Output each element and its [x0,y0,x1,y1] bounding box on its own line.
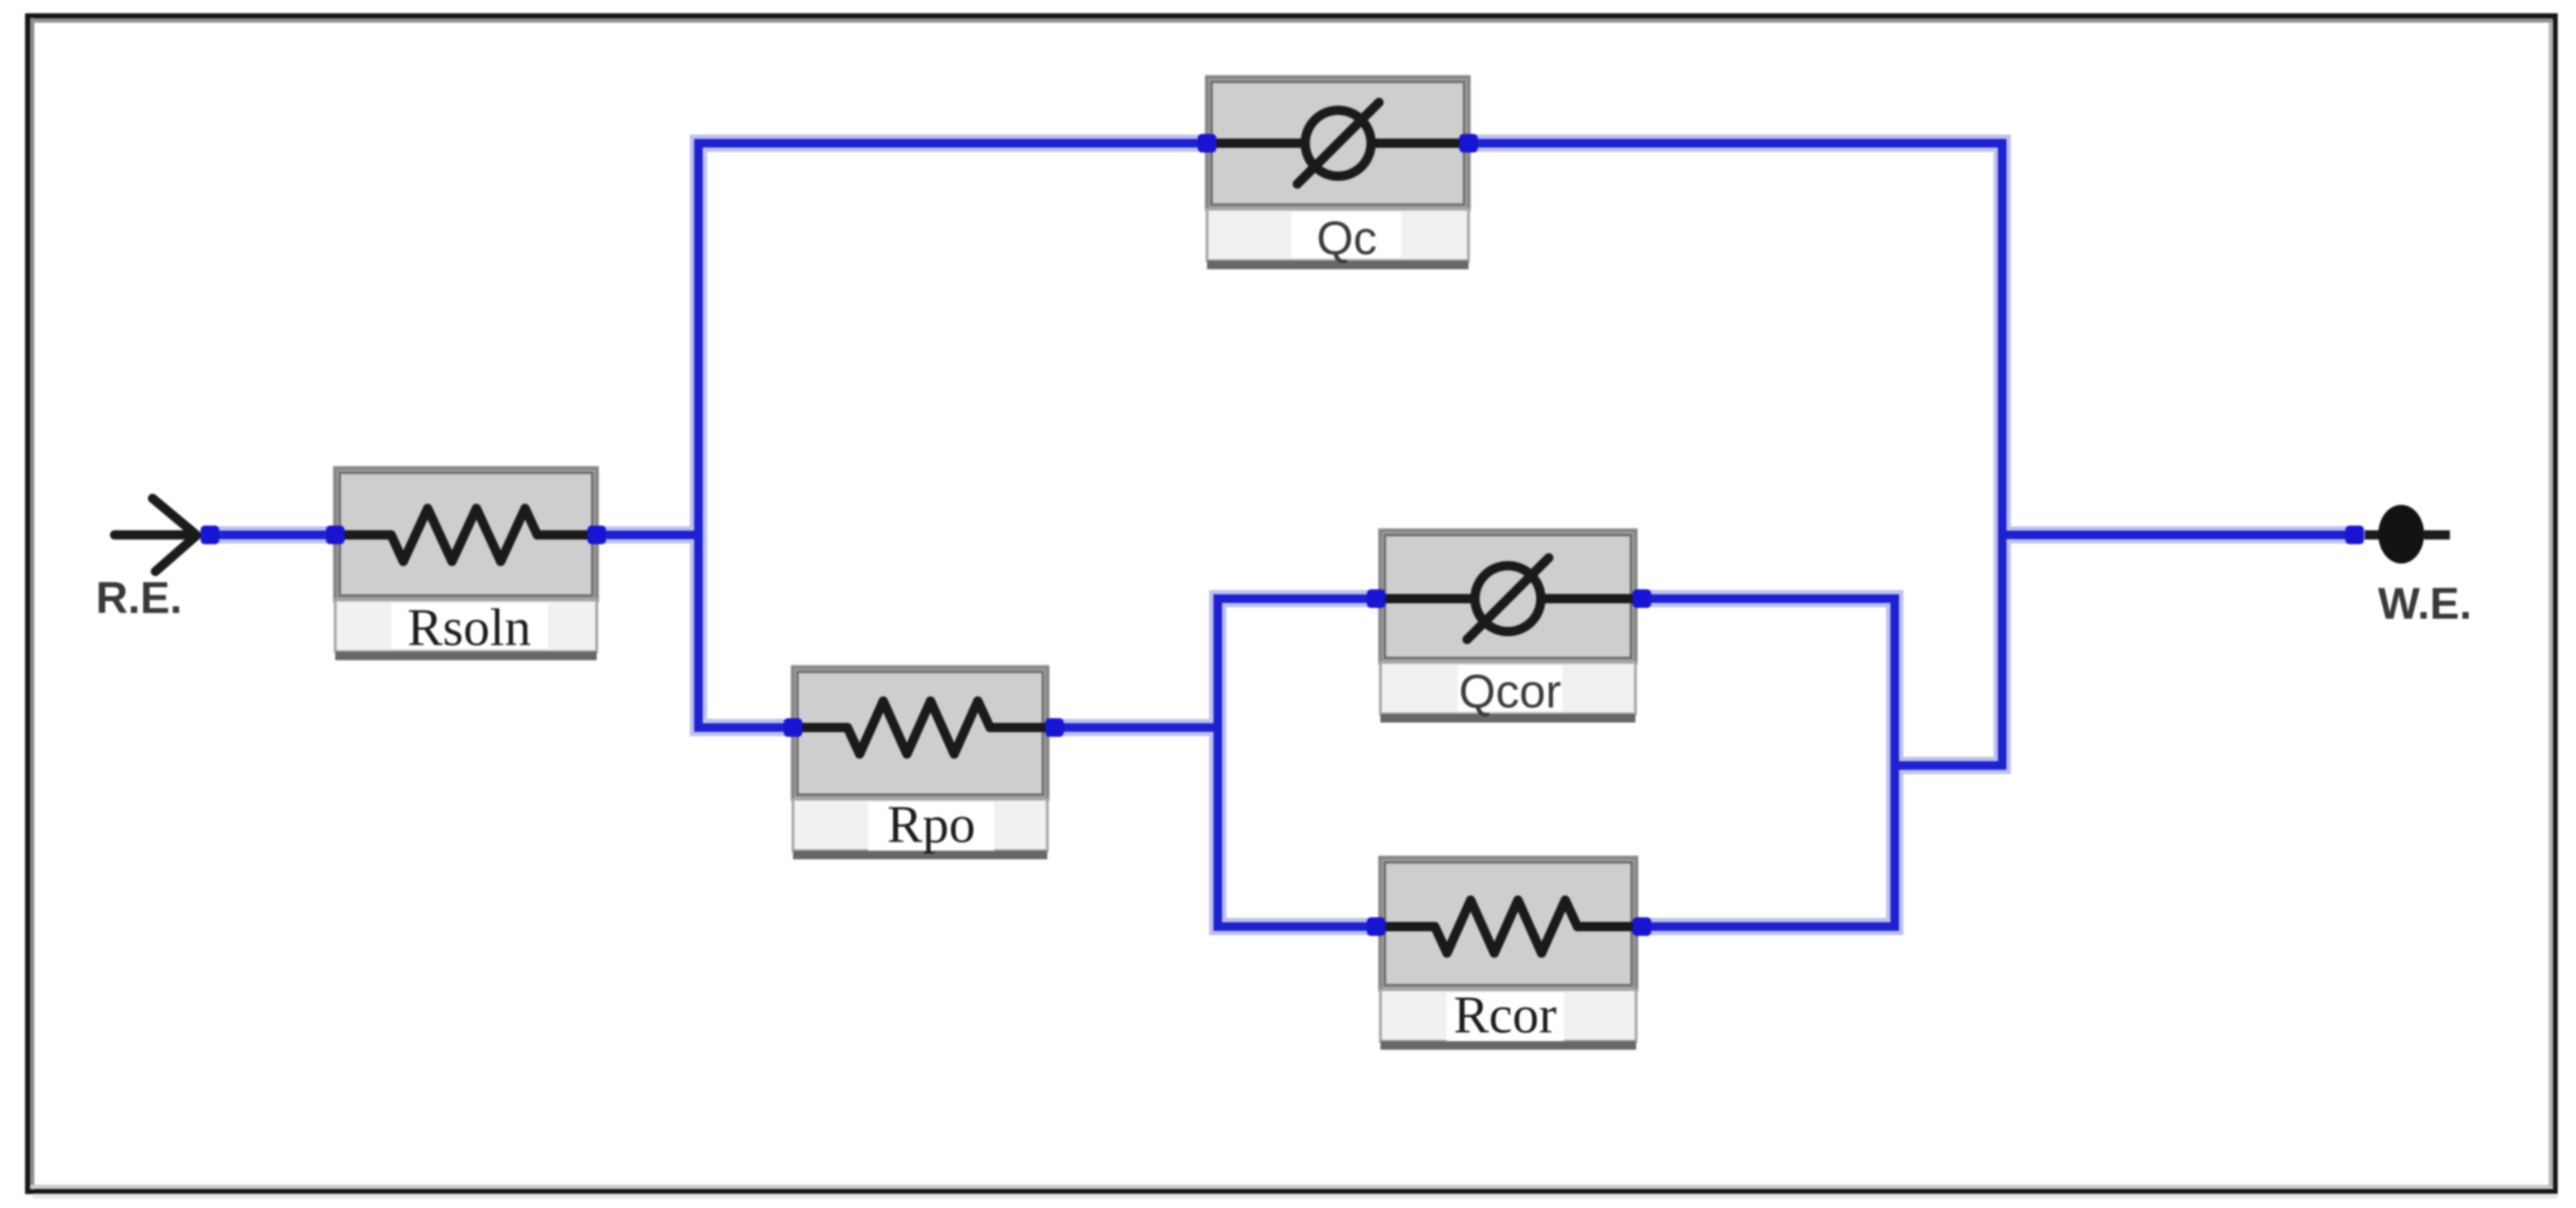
wire to W.E. [2002,531,2355,539]
node at R.E. arrow tip [201,526,219,544]
node Qcor left [1367,589,1385,608]
CPE Qcor [1380,531,1635,723]
wire halos [210,143,2355,927]
wire Qcor right to inner vertical [1635,594,1895,603]
svg-text:Rcor: Rcor [1453,986,1557,1045]
wire left vertical of inner parallel [1213,599,1222,927]
W.E. terminal dot [2365,505,2450,564]
svg-text:Rsoln: Rsoln [408,599,532,657]
node Qcor right [1633,589,1651,608]
svg-text:Qc: Qc [1317,211,1377,264]
wire connector inner to outer vertical [1895,761,2002,770]
node Qc right [1459,134,1478,153]
resistor Rcor [1380,858,1636,1050]
node Rpo left [784,718,802,737]
resistor Rsoln [335,468,597,660]
wire to Rcor left [1218,922,1380,931]
wire left vertical of outer parallel [694,143,703,728]
svg-text:Qcor: Qcor [1458,665,1561,717]
wire R.E. node to Rsoln [210,531,335,539]
wire junction to Rpo [698,723,793,732]
wire Rsoln to split junction [597,531,698,539]
node Rsoln left [326,526,345,544]
node Qc left [1198,134,1216,153]
node W.E. [2345,526,2364,544]
wire Qc to right vertical [1469,139,2002,148]
wire top branch to Qc [698,139,1207,148]
svg-text:R.E.: R.E. [96,574,183,623]
wire right vertical of outer parallel [1998,143,2007,765]
svg-text:W.E.: W.E. [2378,579,2472,629]
wire Rpo to inner split [1047,723,1218,732]
svg-text:Rpo: Rpo [887,796,975,854]
node Rsoln right [587,526,606,544]
node Rcor left [1367,917,1385,936]
wire Rcor right to inner vertical [1636,922,1895,931]
wire to Qcor left [1218,594,1380,603]
wire right vertical of inner parallel [1890,599,1899,927]
R.E. input arrow [115,498,196,571]
node Rpo right [1045,718,1064,737]
resistor Rpo [793,667,1047,859]
CPE Qc [1207,77,1469,269]
node Rcor right [1633,917,1651,936]
